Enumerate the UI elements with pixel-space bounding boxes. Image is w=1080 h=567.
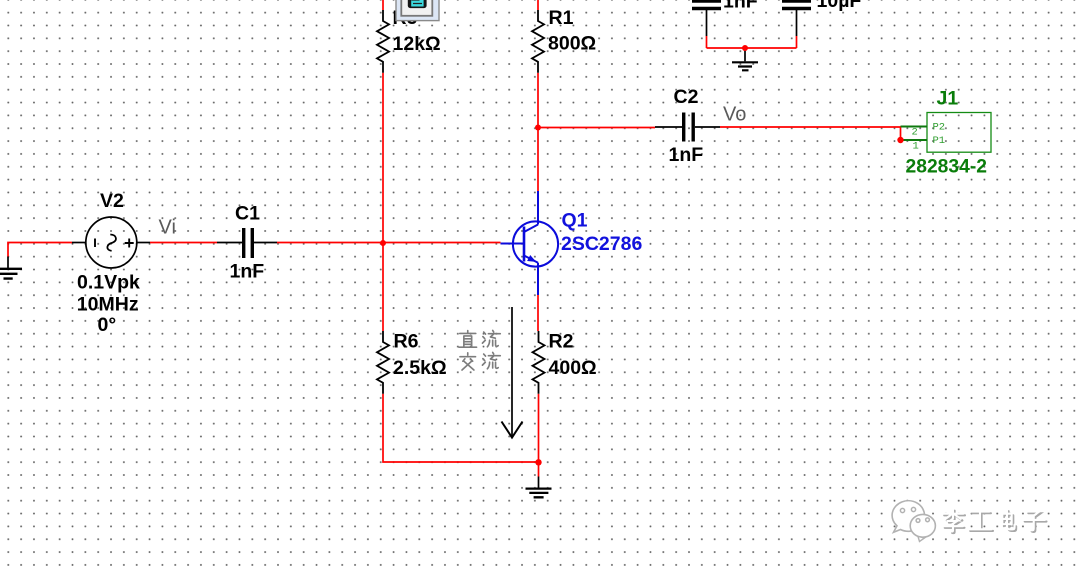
svg-text:P2: P2 — [933, 122, 946, 134]
svg-text:J1: J1 — [937, 88, 959, 110]
svg-text:400Ω: 400Ω — [549, 357, 597, 379]
svg-text:1nF: 1nF — [230, 261, 265, 283]
resistor R6 — [377, 331, 389, 394]
svg-text:1: 1 — [913, 141, 919, 153]
source V2 — [86, 217, 137, 268]
svg-text:2.5kΩ: 2.5kΩ — [393, 357, 447, 379]
J1 pin 1 — [901, 139, 928, 141]
svg-text:10MHz: 10MHz — [77, 293, 139, 315]
svg-text:R2: R2 — [549, 331, 574, 353]
transistor Q1 — [501, 191, 559, 295]
svg-text:10µF: 10µF — [817, 0, 862, 12]
watermark wechat logo — [892, 501, 935, 542]
node junction: base node (C1 / R5 / R6 / Q1 base) — [380, 240, 386, 246]
node junction: bottom ground node — [535, 459, 541, 465]
resistor R5 — [377, 10, 389, 73]
ground bottom — [526, 489, 552, 498]
capacitor C1 — [244, 228, 253, 258]
svg-text:2: 2 — [912, 127, 918, 139]
ground top — [732, 62, 758, 70]
svg-text:0.1Vpk: 0.1Vpk — [77, 272, 140, 294]
cursor icon overlay — [396, 0, 439, 21]
annotation text DC (zhi liu) — [459, 330, 500, 347]
annotation text AC (jiao liu) — [460, 352, 500, 370]
capacitor C4 10uF (top) — [782, 1, 811, 9]
svg-text:12kΩ: 12kΩ — [393, 33, 441, 55]
svg-text:C2: C2 — [674, 86, 699, 108]
annotation arrow (DC/AC) — [502, 307, 523, 438]
svg-text:Vo: Vo — [723, 104, 746, 126]
capacitor C3 1nF (top) — [692, 1, 721, 9]
svg-text:2SC2786: 2SC2786 — [561, 233, 642, 255]
svg-text:1nF: 1nF — [669, 144, 704, 166]
svg-text:Q1: Q1 — [562, 210, 588, 232]
svg-text:0°: 0° — [98, 314, 117, 336]
svg-text:R1: R1 — [549, 7, 574, 29]
watermark text (li gong dian zi) — [944, 511, 1046, 533]
svg-text:1nF: 1nF — [723, 0, 758, 13]
svg-text:V2: V2 — [100, 190, 124, 212]
wire: red segments — [8, 0, 901, 477]
resistor R2 — [533, 331, 545, 394]
node junction: J1 pins node — [897, 137, 903, 143]
svg-text:C1: C1 — [235, 203, 260, 225]
svg-text:P1: P1 — [933, 135, 946, 147]
svg-text:282834-2: 282834-2 — [906, 157, 987, 178]
node junction: collector node (R1 / C2) — [535, 125, 541, 131]
capacitor C2 — [684, 113, 694, 142]
svg-text:Vi: Vi — [159, 217, 176, 239]
svg-text:800Ω: 800Ω — [548, 33, 596, 55]
ground left — [0, 269, 22, 279]
J1 pin 2 — [901, 126, 928, 128]
connector J1 — [927, 113, 991, 153]
svg-text:R6: R6 — [394, 331, 419, 353]
resistor R1 — [532, 10, 544, 73]
node junction: top ground node — [742, 45, 748, 51]
wire: black leads — [8, 10, 797, 488]
